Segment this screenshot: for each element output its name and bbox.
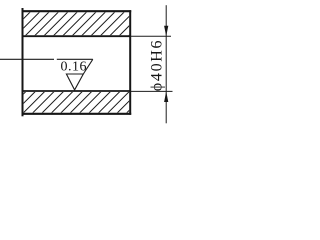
hatching (top band) [0,0,240,125]
hatching (bottom band) [0,0,240,125]
arrowhead down [164,26,168,36]
part outline: right face [129,10,131,115]
roughness symbol leg [83,59,93,74]
arrowhead up [164,91,168,102]
extension line top [130,35,171,37]
part outline: top edge [22,10,132,12]
roughness triangle [66,74,83,90]
bore bottom surface [23,90,131,92]
roughness leader bar [0,58,54,60]
dimension line [165,5,167,123]
svg-text:0.16: 0.16 [60,59,87,74]
bore top surface [23,35,131,37]
part outline: left face [22,8,24,116]
svg-text:ϕ40H6: ϕ40H6 [149,39,166,91]
extension line bottom [130,90,172,92]
part outline: bottom edge [22,113,132,115]
